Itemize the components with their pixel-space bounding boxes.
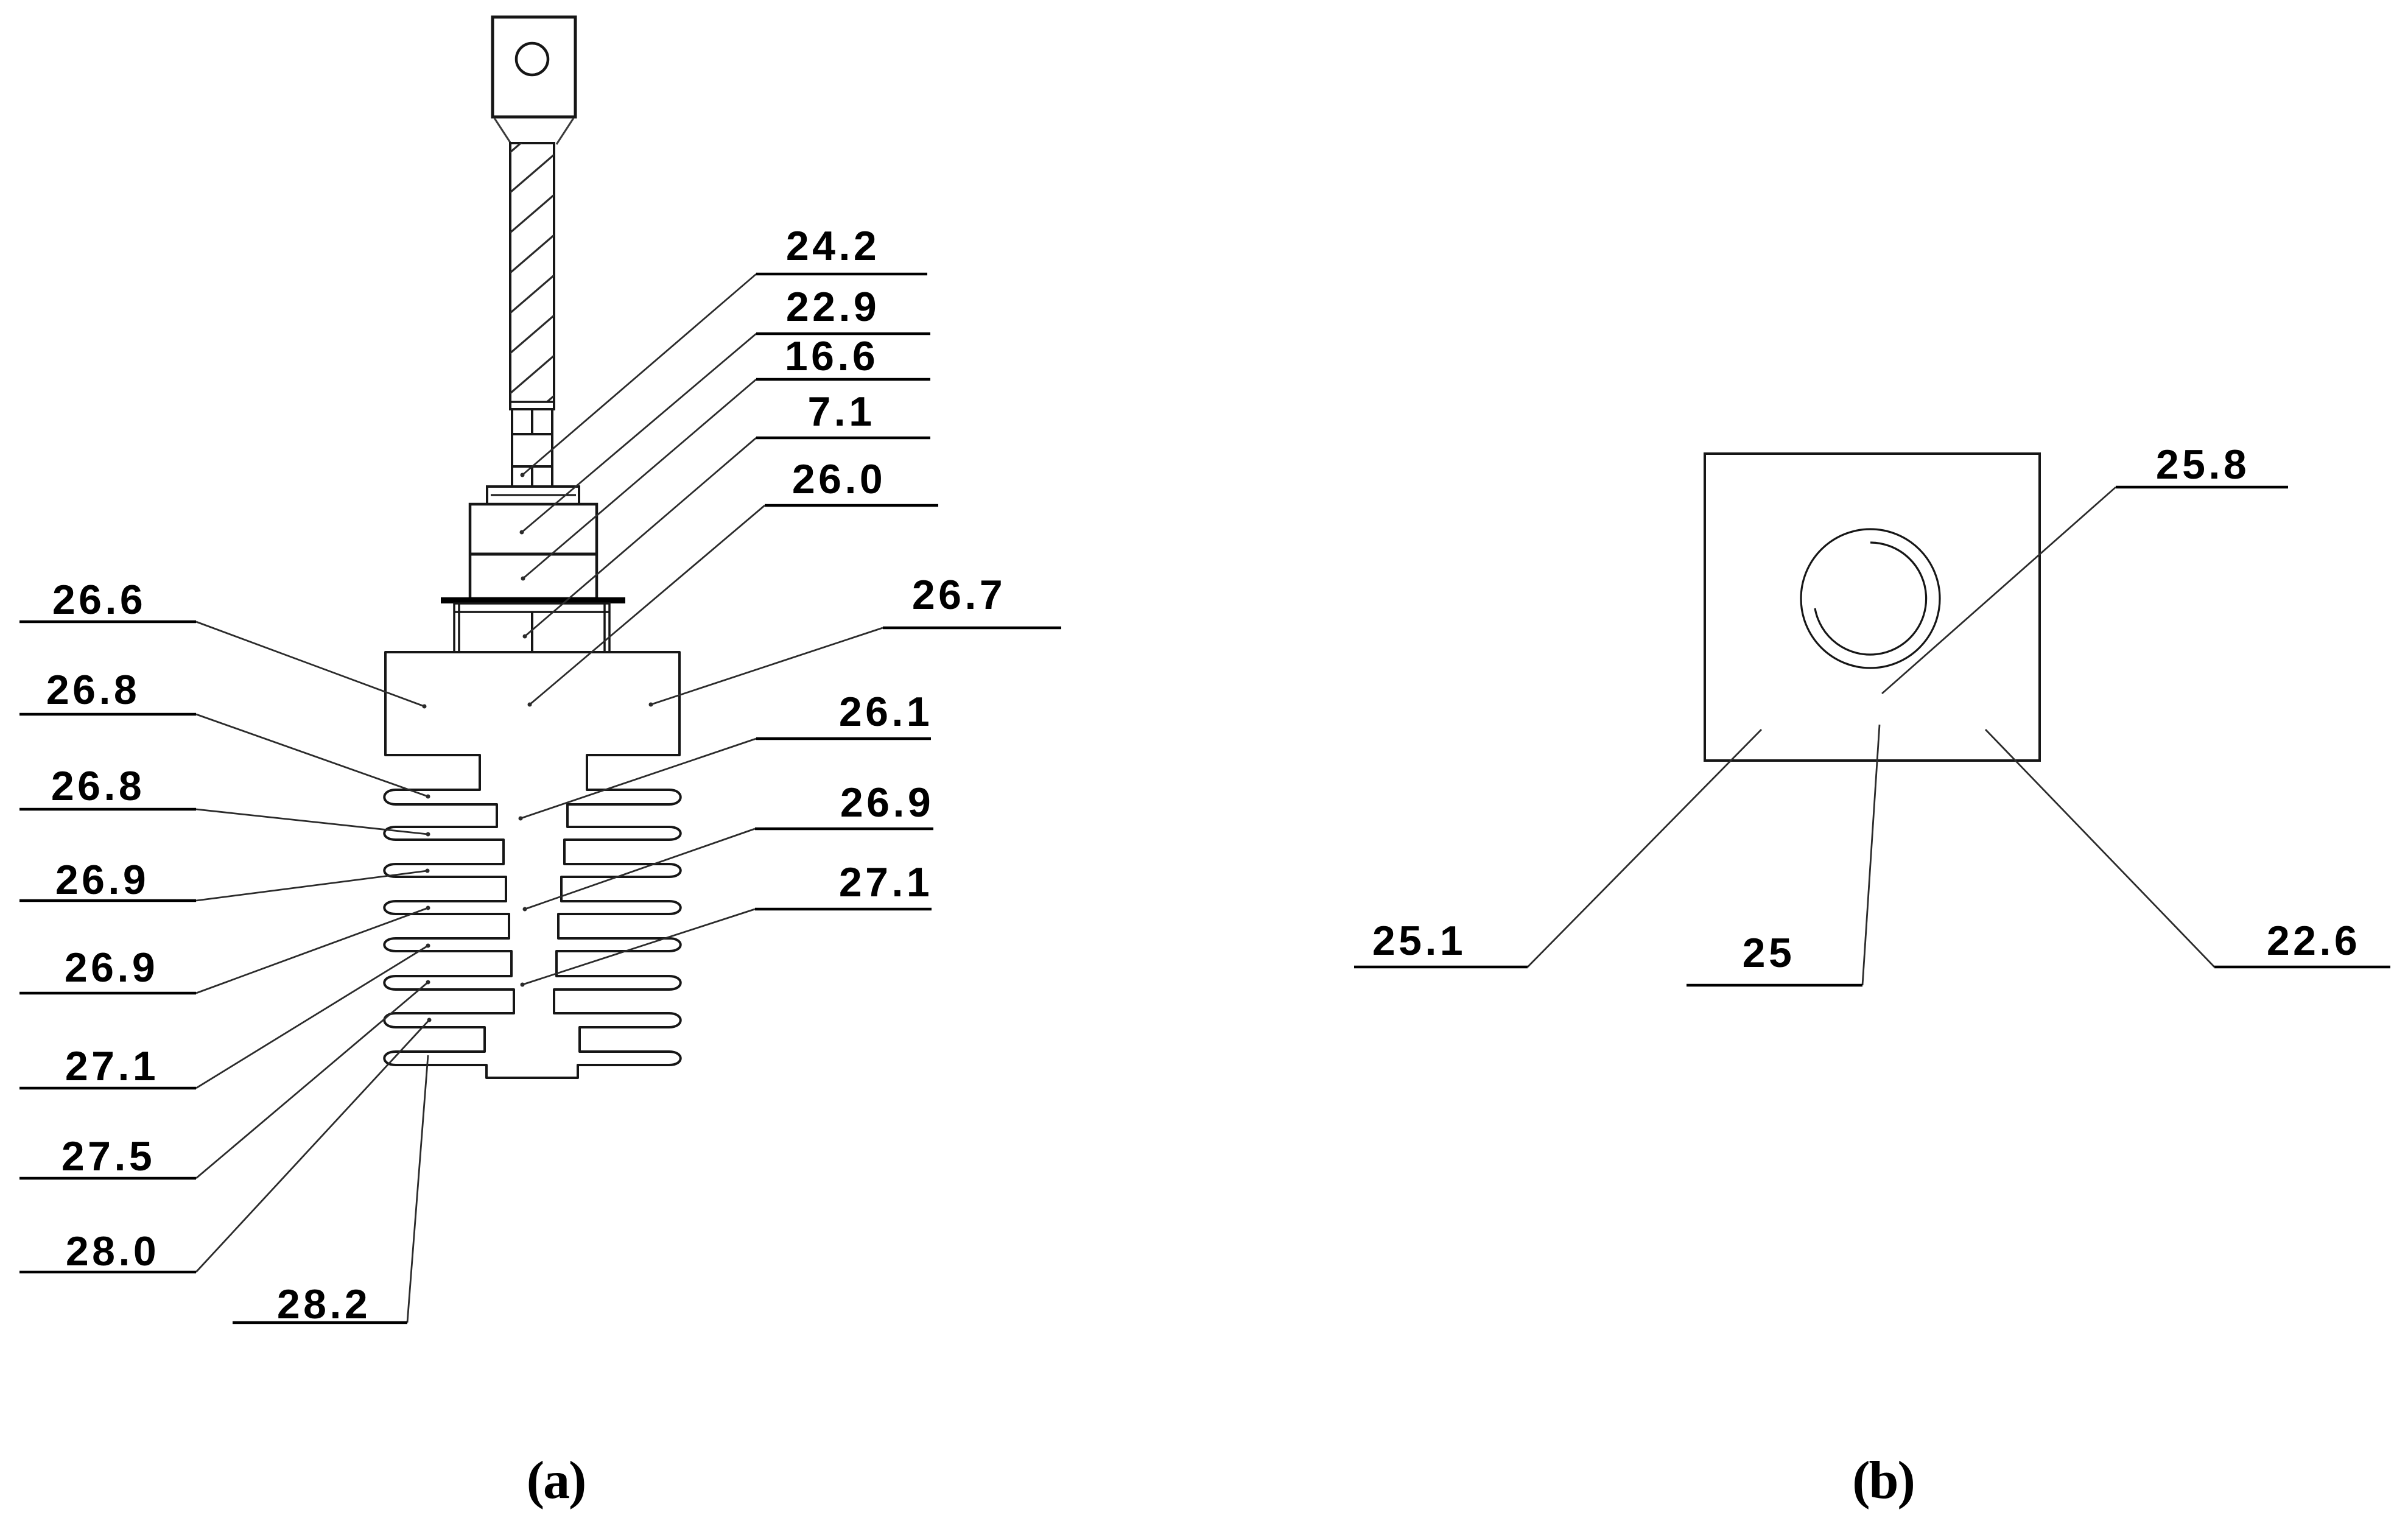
svg-text:16.6: 16.6 <box>785 333 879 379</box>
underline 26.9 right <box>755 828 933 831</box>
underline 27.1 right <box>755 908 932 911</box>
svg-text:22.9: 22.9 <box>786 284 880 330</box>
leader lines <box>196 274 2214 1323</box>
leader 16.6 <box>523 379 756 578</box>
leader 27.5 <box>196 982 428 1178</box>
leader 26.9 first <box>196 871 427 901</box>
underline 26.8 first <box>19 713 196 716</box>
collar divider <box>454 611 609 613</box>
collar inner wall left <box>458 603 460 652</box>
nut stack section 1 <box>512 409 552 434</box>
underline 26.8 second <box>19 808 196 811</box>
washer step <box>487 487 579 504</box>
underline 26.0 <box>765 504 938 507</box>
underline 7.1 <box>756 437 930 440</box>
underline 27.1 left <box>19 1087 196 1090</box>
hole thread arc <box>1815 543 1926 655</box>
label underlines <box>19 274 2390 1323</box>
underline 22.6 <box>2214 966 2390 969</box>
neck taper <box>494 118 574 144</box>
thread hatching <box>510 114 554 434</box>
svg-text:25.8: 25.8 <box>2156 441 2250 488</box>
underline 25.8 <box>2116 486 2288 489</box>
washer inner line <box>491 494 576 496</box>
svg-text:24.2: 24.2 <box>786 223 880 269</box>
leader 22.6 <box>1985 729 2214 967</box>
nut stack section 3 <box>512 466 552 487</box>
thread end line <box>510 401 554 403</box>
svg-text:26.8: 26.8 <box>51 763 145 809</box>
underline 28.0 <box>19 1271 196 1274</box>
underline 26.7 <box>883 627 1061 630</box>
leader 26.0 <box>530 505 765 705</box>
leader 7.1 <box>525 438 756 636</box>
leader 26.7 <box>651 628 883 705</box>
svg-text:26.8: 26.8 <box>46 667 140 713</box>
underline 26.9 second <box>19 992 196 995</box>
leader 27.1 left <box>196 946 428 1088</box>
svg-text:28.0: 28.0 <box>66 1228 160 1274</box>
svg-text:25.1: 25.1 <box>1372 918 1466 964</box>
svg-text:26.1: 26.1 <box>839 689 933 735</box>
svg-text:26.9: 26.9 <box>65 944 158 991</box>
underline 26.9 first <box>19 899 196 902</box>
leader 26.1 <box>521 739 756 818</box>
hole outer circle <box>1801 529 1940 668</box>
nut stack centre line 1 <box>531 409 533 434</box>
underline 25.1 <box>1354 966 1528 969</box>
nut stack centre line 2 <box>531 466 533 487</box>
svg-text:7.1: 7.1 <box>807 388 875 435</box>
leader 26.8 first <box>196 714 428 796</box>
leader 25.8 <box>1882 487 2116 694</box>
underline 22.9 <box>756 332 930 336</box>
eye terminal block <box>493 17 575 117</box>
leader 22.9 <box>522 334 756 532</box>
underline 27.5 <box>19 1177 196 1180</box>
square body <box>1705 454 2040 761</box>
gland block divider <box>470 553 597 556</box>
svg-text:27.1: 27.1 <box>65 1043 159 1089</box>
svg-text:26.9: 26.9 <box>840 779 934 826</box>
gland block <box>470 504 597 599</box>
underline 16.6 <box>756 378 930 381</box>
underline 25 <box>1687 984 1862 987</box>
leader 26.6 <box>196 622 424 706</box>
svg-text:26.7: 26.7 <box>912 572 1006 618</box>
svg-text:26.6: 26.6 <box>52 577 146 623</box>
svg-text:27.1: 27.1 <box>839 859 933 905</box>
flange plate (bold) <box>441 597 625 603</box>
svg-text:26.9: 26.9 <box>55 857 149 903</box>
heat-sink body with fins <box>384 652 681 1078</box>
leader 26.9 second <box>196 908 428 993</box>
threaded stud shank <box>510 143 554 409</box>
leader 28.2 <box>407 1055 428 1323</box>
underline 26.1 <box>756 737 931 740</box>
leader 26.9 right <box>525 829 755 909</box>
underline 26.6 <box>19 620 196 624</box>
svg-text:25: 25 <box>1743 930 1795 976</box>
leader 26.8 second <box>196 809 428 834</box>
leader 25 <box>1862 725 1880 985</box>
svg-text:(b): (b) <box>1852 1451 1914 1510</box>
svg-text:28.2: 28.2 <box>277 1281 371 1327</box>
underline 28.2 <box>233 1321 407 1324</box>
svg-text:(a): (a) <box>527 1451 586 1510</box>
leader 28.0 <box>196 1020 429 1272</box>
collar outer <box>454 603 609 652</box>
leader 25.1 <box>1528 729 1761 967</box>
svg-text:26.0: 26.0 <box>792 456 886 502</box>
svg-text:22.6: 22.6 <box>2267 918 2361 964</box>
collar centre line <box>531 612 533 652</box>
svg-text:27.5: 27.5 <box>61 1133 155 1179</box>
nut stack section 2 <box>512 434 552 466</box>
underline 24.2 <box>756 273 927 276</box>
eye hole <box>516 43 548 75</box>
leader 27.1 right <box>522 909 755 985</box>
leader 24.2 <box>522 274 756 475</box>
collar inner wall right <box>603 603 606 652</box>
